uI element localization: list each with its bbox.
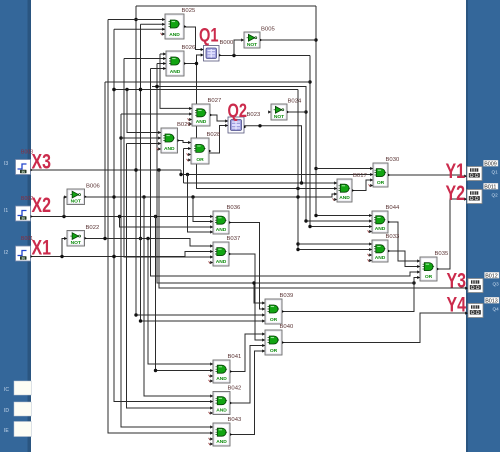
svg-text:B009: B009 — [484, 162, 497, 168]
AND gate B042 — [209, 386, 242, 415]
svg-text:B044: B044 — [386, 205, 400, 211]
NOT gate B022 — [64, 225, 99, 246]
wire B022 out to B037 in1 — [85, 237, 213, 246]
wire y86 to B044 in2 — [152, 85, 372, 223]
svg-text:B013: B013 — [485, 299, 498, 305]
wire B006 net to B042 in1 — [144, 197, 213, 396]
wire B036 out to B039 in2 — [229, 223, 265, 310]
output block Q1 (Q1) — [464, 160, 498, 180]
svg-text:B005: B005 — [261, 27, 275, 33]
svg-text:AND: AND — [216, 408, 227, 414]
NOT gate B024 — [268, 99, 302, 121]
RS latch B023 — [225, 112, 261, 133]
OR gate B035 — [417, 251, 449, 281]
input block X1 (X1) — [16, 236, 52, 262]
svg-text:OR: OR — [377, 180, 385, 186]
wire y183 left to B028 drop — [184, 182, 302, 184]
input block X2 (X2) — [16, 193, 52, 221]
svg-text:B041: B041 — [228, 354, 242, 360]
wire trunk x136 to B039 in3 — [134, 6, 265, 317]
svg-text:B011: B011 — [484, 185, 496, 191]
wire to B029 in1 — [127, 90, 161, 133]
svg-text:X3: X3 — [32, 150, 52, 174]
wire trunk x121 to B043 in1 — [119, 114, 213, 427]
svg-text:AND: AND — [169, 32, 180, 38]
svg-text:B026: B026 — [182, 45, 196, 51]
wire branch to B033 in1 — [298, 243, 372, 245]
wire X1 row to B037 in2 — [31, 252, 213, 259]
wire X2 row to B036 in1 — [31, 215, 213, 218]
wire trunk x108 to B043 in2 — [108, 20, 213, 434]
svg-text:Q2: Q2 — [492, 192, 499, 197]
wire B022 net to B041 in1 — [148, 239, 213, 365]
svg-text:AND: AND — [375, 226, 386, 232]
wire to B027 in2 — [121, 113, 192, 115]
wire B043 out to B040 in4 — [230, 351, 265, 435]
svg-text:B024: B024 — [288, 99, 302, 105]
svg-text:B042: B042 — [228, 386, 242, 392]
svg-text:IC: IC — [4, 387, 9, 393]
svg-text:AND: AND — [216, 227, 227, 233]
spare input slot IE — [4, 422, 32, 437]
svg-text:OR: OR — [425, 274, 433, 280]
wire branch to B030 in1 — [316, 168, 373, 170]
wire B037 out to B040 in2 — [229, 254, 265, 340]
wire B024 out — [287, 111, 306, 113]
svg-text:Y2: Y2 — [446, 182, 466, 205]
svg-text:AND: AND — [339, 195, 350, 201]
AND gate B037 — [209, 236, 241, 266]
wire to B028 in2 — [184, 148, 192, 150]
OR gate B039 — [262, 293, 293, 324]
output block Q4 (Q4) — [465, 297, 499, 317]
svg-text:B017: B017 — [353, 173, 367, 179]
wire to B029 in3 — [127, 143, 162, 145]
wire B025 out to B000 S — [184, 27, 204, 50]
svg-text:X2: X2 — [32, 193, 52, 217]
svg-text:OR: OR — [270, 317, 278, 323]
svg-text:I1: I1 — [4, 208, 8, 214]
wire to B026 in1 — [160, 53, 166, 55]
spare input slot IC — [4, 381, 32, 395]
wire B006 out to B017 in3 — [85, 194, 337, 199]
svg-text:Q1: Q1 — [492, 169, 499, 174]
AND gate B044 — [368, 205, 400, 233]
wire branch to B036 in2 — [193, 197, 213, 222]
AND gate B027 — [188, 98, 222, 126]
wire trunk x316 to B044 in1 — [314, 6, 372, 217]
AND gate B017 — [333, 173, 367, 202]
svg-text:B030: B030 — [386, 157, 400, 163]
wire to B025 in2 — [141, 23, 166, 25]
svg-text:AND: AND — [216, 439, 227, 445]
wire trunk x124 to B037 in3 — [124, 59, 213, 258]
AND gate B036 — [210, 205, 241, 234]
RS latch B000 — [201, 40, 234, 61]
wire trunk x298 to B033 in2 — [296, 90, 372, 252]
svg-text:OR: OR — [270, 348, 278, 354]
wire B040 out to Q4 — [282, 313, 466, 343]
wire branch to B029 in2 — [121, 137, 161, 139]
wire to B026 in3 — [157, 63, 166, 65]
wire B028 in2 drop — [183, 149, 185, 184]
svg-text:AND: AND — [170, 69, 181, 75]
output block Q2 (Q2) — [464, 183, 498, 203]
svg-text:AND: AND — [196, 119, 207, 125]
svg-text:AND: AND — [216, 376, 227, 382]
svg-text:B027: B027 — [208, 98, 222, 104]
wire trunk x114 to B042 in2 — [112, 29, 213, 401]
wire B017 out to B030 in3 — [352, 180, 373, 191]
wire long y288 to Q3 — [159, 170, 466, 288]
svg-text:B006: B006 — [86, 184, 100, 190]
svg-text:OR: OR — [196, 157, 204, 163]
input block X3 (X3) — [16, 150, 52, 175]
wire long y276 to B035 in3 — [151, 69, 421, 277]
wire to B025 in3 — [114, 28, 165, 30]
wire y90 crossover — [112, 88, 298, 91]
wire B000 output — [219, 54, 310, 57]
wire B029 out to B028 in1 — [178, 141, 192, 143]
svg-text:I2: I2 — [4, 250, 8, 256]
svg-text:IE: IE — [4, 428, 9, 434]
svg-text:B037: B037 — [227, 236, 241, 242]
svg-text:NOT: NOT — [274, 114, 284, 120]
AND gate B033 — [368, 234, 400, 262]
svg-text:AND: AND — [375, 255, 386, 261]
output block Q3 (Q3) — [465, 272, 499, 292]
wire X3 row jog to B030 in2 — [179, 170, 373, 176]
wire B044 out to B035 in1 — [388, 222, 420, 261]
wire to B039 in1 — [252, 281, 265, 303]
wire B027 out to B023 S — [210, 115, 228, 121]
wire B039 out to B035 in4 — [282, 278, 420, 312]
wire to B025 in1 — [108, 19, 165, 21]
wire B035 out to Q2 — [437, 199, 466, 269]
wire B026 out to B017 in2 — [195, 62, 337, 190]
OR gate B030 — [369, 157, 400, 187]
wire trunk x310 to B044 in3 — [308, 56, 372, 229]
svg-text:B022: B022 — [86, 225, 100, 231]
AND gate B043 — [209, 417, 242, 446]
wire B028 out to B023 R — [209, 126, 228, 154]
NOT gate B005 — [241, 27, 275, 49]
svg-text:B036: B036 — [227, 205, 241, 211]
svg-text:B035: B035 — [435, 251, 449, 257]
svg-text:Q1: Q1 — [199, 25, 219, 47]
svg-text:Y4: Y4 — [447, 294, 467, 317]
svg-text:B040: B040 — [280, 324, 294, 330]
svg-text:B039: B039 — [280, 293, 294, 299]
wire B033 out to B035 in2 — [388, 251, 420, 267]
wire X2 to B006 input — [64, 197, 67, 217]
wire y82 crossover — [105, 81, 310, 83]
wire trunk x126 to B042 in3 — [127, 144, 214, 409]
wire long y283 feedback — [155, 64, 415, 285]
svg-text:AND: AND — [164, 146, 175, 152]
svg-text:B025: B025 — [182, 8, 196, 14]
right interface sidebar — [466, 0, 500, 452]
left interface sidebar — [0, 0, 31, 452]
svg-text:Y1: Y1 — [446, 160, 466, 183]
svg-text:Y3: Y3 — [447, 270, 467, 293]
AND gate B041 — [209, 354, 242, 383]
svg-text:Q3: Q3 — [493, 281, 500, 286]
wire X1 to B022 input — [60, 239, 67, 259]
NOT gate B006 — [64, 184, 100, 205]
wire trunk x140 to B039 in4 — [139, 24, 265, 322]
wire drop x105 to B022 net — [104, 82, 106, 239]
wire B042 out to B040 in3 — [230, 346, 265, 404]
AND gate B026 — [163, 45, 196, 76]
wire to B036 in3 — [120, 217, 214, 228]
svg-text:Q2: Q2 — [228, 100, 248, 122]
AND gate B029 — [157, 122, 191, 153]
OR gate B040 — [262, 324, 294, 355]
wire to B026 in4 — [151, 68, 167, 70]
svg-text:Q4: Q4 — [493, 306, 500, 311]
spare input slot ID — [4, 402, 32, 416]
svg-text:B028: B028 — [207, 132, 221, 138]
svg-text:B023: B023 — [247, 112, 261, 118]
svg-text:B033: B033 — [386, 234, 400, 240]
wire trunk x160 to B027 in1 — [160, 54, 192, 108]
wire B030 out to Q1 — [388, 175, 466, 176]
svg-text:NOT: NOT — [247, 42, 257, 48]
AND gate B025 — [161, 8, 196, 39]
wire X3 net to B036 in4 — [188, 175, 214, 233]
svg-text:B029: B029 — [177, 122, 191, 128]
wire B026 out to B000 R — [184, 55, 204, 64]
svg-text:B000: B000 — [220, 40, 234, 46]
wire to B005 input — [234, 40, 244, 56]
svg-text:AND: AND — [216, 259, 227, 265]
svg-text:NOT: NOT — [71, 240, 81, 246]
svg-text:ID: ID — [4, 408, 9, 414]
wire X2 to B041 in2 — [154, 217, 213, 373]
svg-text:B043: B043 — [228, 417, 242, 423]
wire X3 row — [31, 168, 181, 171]
svg-text:I3: I3 — [4, 161, 8, 167]
svg-text:B012: B012 — [485, 274, 498, 280]
wire B005 output — [260, 39, 316, 41]
svg-text:NOT: NOT — [71, 198, 81, 204]
wire B041 out to B040 in1 — [230, 334, 265, 372]
OR gate B028 — [187, 132, 221, 164]
wire top feedback net — [136, 5, 316, 7]
wire B023 out to B017 in1 — [244, 124, 337, 185]
svg-text:X1: X1 — [32, 236, 52, 260]
wire to B026 in2 — [124, 58, 166, 60]
